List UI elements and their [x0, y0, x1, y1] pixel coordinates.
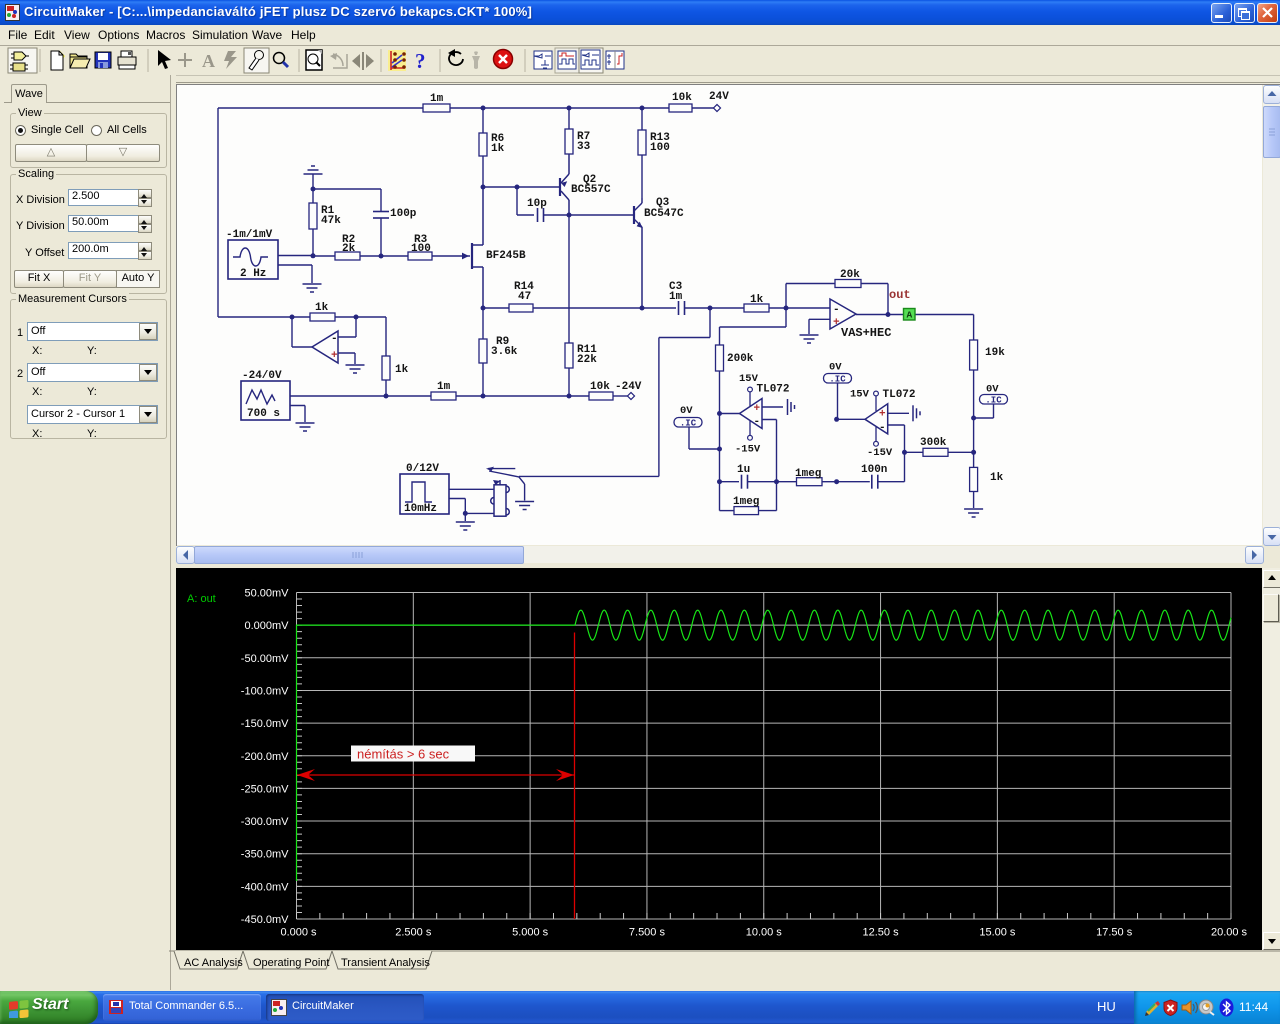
- ground: [964, 509, 983, 517]
- svg-text:BC557C: BC557C: [571, 184, 611, 196]
- wire fb up: [786, 284, 835, 309]
- wire gnd stub: [312, 174, 314, 189]
- tab Operating Point: [243, 951, 332, 969]
- resistor 1m (row 396): [431, 392, 456, 400]
- svg-text:1m: 1m: [430, 93, 444, 105]
- capacitor 100p: [373, 212, 389, 219]
- wire 10k to terminal: [692, 107, 714, 109]
- wire R14 right: [533, 307, 642, 309]
- tab row: [176, 950, 1280, 973]
- svg-text:0V: 0V: [829, 362, 842, 374]
- svg-text:200k: 200k: [727, 353, 754, 365]
- svg-text:1meg: 1meg: [795, 468, 821, 480]
- ground: [913, 405, 920, 421]
- svg-text:2.500 s: 2.500 s: [395, 927, 432, 939]
- svg-text:1k: 1k: [315, 302, 329, 314]
- scrollbars, tabs, taskbar: [1263, 85, 1280, 545]
- wire 10p left wire: [517, 187, 534, 215]
- svg-text:A: A: [202, 51, 215, 71]
- svg-text:-450.0mV: -450.0mV: [241, 914, 289, 926]
- resistor R6 1k: [479, 133, 487, 156]
- svg-text:+: +: [879, 409, 886, 421]
- wire 1meg-r right: [822, 481, 837, 483]
- wire R9 top: [482, 308, 484, 339]
- wire row317 left: [218, 316, 310, 318]
- svg-text:2k: 2k: [342, 243, 356, 255]
- wire U4 out: [837, 418, 865, 420]
- wire R7 top: [568, 108, 570, 129]
- resistor R11 22k: [565, 343, 573, 368]
- svg-text:100n: 100n: [861, 464, 887, 476]
- svg-text:0V: 0V: [680, 405, 693, 417]
- svg-text:BC547C: BC547C: [644, 208, 684, 220]
- svg-text:47k: 47k: [321, 215, 341, 227]
- menu bar: [0, 25, 1280, 46]
- svg-text:15V: 15V: [850, 389, 870, 401]
- svg-text:0V: 0V: [986, 384, 999, 396]
- wire to 100p: [313, 188, 381, 190]
- svg-text:némítás > 6 sec: némítás > 6 sec: [357, 747, 450, 762]
- wire U2 out: [856, 314, 974, 316]
- op-amp U1 (left pointing): [312, 331, 338, 363]
- annotation nemitas: [351, 746, 475, 762]
- svg-text:0/12V: 0/12V: [406, 463, 439, 475]
- svg-text:19k: 19k: [985, 347, 1005, 359]
- svg-text:.IC: .IC: [680, 419, 697, 429]
- schematic canvas: [177, 85, 1262, 545]
- wire left column: [217, 108, 219, 317]
- waveform area: [176, 568, 1262, 950]
- wire 1meg-r left: [777, 481, 797, 483]
- source V1 sine -1m/1mV 2Hz: [228, 240, 278, 279]
- wire U4 minus: [888, 425, 905, 482]
- resistor R7 33: [565, 129, 573, 154]
- relay K1 coil: [491, 480, 510, 516]
- svg-text:3.6k: 3.6k: [491, 346, 518, 358]
- wire R2-R3: [360, 255, 408, 257]
- resistor 1meg (series): [797, 478, 823, 486]
- svg-text:+: +: [754, 403, 761, 415]
- transistor BF245B JFET: [432, 187, 483, 308]
- resistor 200k: [716, 345, 724, 371]
- wire R13 bottom: [641, 155, 643, 198]
- wire 100n left: [837, 481, 870, 483]
- x axis minor ticks: [297, 913, 1232, 919]
- wire U4 plus: [888, 412, 909, 414]
- svg-text:-1m/1mV: -1m/1mV: [226, 229, 273, 241]
- svg-text:2 Hz: 2 Hz: [240, 268, 266, 280]
- wire IC2 wire: [837, 383, 839, 419]
- resistor R1 47k: [309, 203, 317, 229]
- svg-text:AC Analysis: AC Analysis: [184, 957, 243, 969]
- transistor Q2 BC557C: [560, 154, 569, 215]
- wire U2 plus wire: [809, 319, 830, 334]
- op-amp U4 TL072 (left pointing): [865, 404, 888, 434]
- resistor R13 100: [638, 130, 646, 155]
- wire R6 bottom: [482, 156, 484, 187]
- wire div mid: [973, 418, 975, 467]
- svg-text:-400.0mV: -400.0mV: [241, 881, 289, 893]
- resistor 1k (feedback row): [310, 313, 335, 321]
- transistor Q3 BC547C: [634, 198, 643, 308]
- ground: [296, 423, 315, 431]
- svg-text:5.000 s: 5.000 s: [512, 927, 549, 939]
- resistor 1k (vertical): [382, 356, 390, 380]
- svg-text:-350.0mV: -350.0mV: [241, 849, 289, 861]
- svg-text:+: +: [331, 350, 338, 362]
- op-amp U2 VAS+HEC: [830, 299, 856, 329]
- capacitor 10p: [538, 208, 544, 222]
- svg-text:?: ?: [415, 49, 426, 73]
- wire 200k top: [720, 308, 787, 345]
- toolbar: [0, 46, 1280, 76]
- wire 10k right: [613, 395, 628, 397]
- svg-text:1k: 1k: [990, 472, 1004, 484]
- node -24V terminal: [627, 392, 634, 399]
- svg-text:TL072: TL072: [757, 384, 790, 396]
- svg-text:-200.0mV: -200.0mV: [241, 751, 289, 763]
- junctions: [481, 106, 486, 111]
- wire C3 left: [642, 307, 676, 309]
- wire 1meg-b right: [759, 510, 777, 512]
- wire IC1 wire: [689, 427, 720, 449]
- svg-text:17.50 s: 17.50 s: [1096, 927, 1133, 939]
- wire 1u right: [748, 481, 777, 483]
- grid: [297, 593, 1232, 920]
- wire 19k bottom: [973, 370, 975, 418]
- svg-text:10.00 s: 10.00 s: [746, 927, 783, 939]
- left panel: [0, 75, 176, 990]
- svg-text:300k: 300k: [920, 437, 947, 449]
- wire row396: [456, 395, 589, 397]
- svg-text:33: 33: [577, 141, 591, 153]
- svg-text:1m: 1m: [669, 291, 683, 303]
- svg-text:50.00mV: 50.00mV: [244, 588, 289, 600]
- svg-text:TL072: TL072: [883, 389, 916, 401]
- wire 1u left: [720, 481, 740, 483]
- wire R9 bottom: [482, 363, 484, 396]
- wire U1 minus: [338, 317, 356, 337]
- wire fb right: [861, 284, 888, 315]
- wire top rail mid: [450, 107, 669, 109]
- resistor 10k (to -24V): [589, 392, 613, 400]
- node 24V terminal: [713, 104, 720, 111]
- wire U1 plus: [338, 353, 355, 364]
- svg-text:Operating Point: Operating Point: [253, 957, 329, 969]
- svg-text:700 s: 700 s: [247, 408, 280, 420]
- wire gnd stub2: [464, 513, 466, 521]
- y axis minor ticks: [297, 593, 303, 920]
- resistor 300k: [923, 448, 948, 456]
- svg-text:0.000 s: 0.000 s: [280, 927, 317, 939]
- resistor R3 100: [408, 252, 432, 260]
- tab Transient Analysis: [332, 951, 432, 969]
- wire V2 gnd pin: [290, 406, 305, 423]
- svg-text:-150.0mV: -150.0mV: [241, 718, 289, 730]
- title bar: [0, 0, 1280, 25]
- ground: [303, 284, 322, 292]
- svg-text:20.00 s: 20.00 s: [1211, 927, 1248, 939]
- svg-text:-100.0mV: -100.0mV: [241, 686, 289, 698]
- wire R1 top: [312, 189, 314, 203]
- wire to 1k vert: [385, 317, 387, 356]
- wire R14 left: [483, 307, 509, 309]
- wire Q2 base wire: [483, 186, 560, 188]
- svg-text:-: -: [331, 333, 338, 345]
- wire 100p bottom wire: [380, 218, 382, 256]
- svg-text:VAS+HEC: VAS+HEC: [841, 326, 891, 340]
- wire U3 minus: [762, 420, 777, 511]
- wire R13 top: [641, 108, 643, 130]
- ground: [800, 335, 819, 343]
- svg-text:100: 100: [650, 142, 670, 154]
- wire U1 out: [292, 317, 312, 347]
- svg-text:24V: 24V: [709, 91, 729, 103]
- capacitor 1u: [742, 475, 748, 489]
- svg-text:BF245B: BF245B: [486, 250, 526, 262]
- wire U3 plus: [762, 406, 783, 408]
- resistor 19k: [970, 340, 978, 370]
- wire R11 top: [568, 215, 570, 343]
- wire 1k left: [710, 307, 744, 309]
- svg-text:10k: 10k: [590, 381, 610, 393]
- svg-text:-: -: [833, 304, 840, 316]
- resistor 1k (to VAS): [744, 304, 769, 312]
- wire U3 out: [720, 413, 740, 415]
- svg-text:10mHz: 10mHz: [404, 503, 437, 515]
- wire R6 top: [482, 108, 484, 133]
- capacitor 100n: [872, 475, 878, 489]
- wire 1k gnd: [973, 492, 975, 509]
- svg-text:1k: 1k: [395, 364, 409, 376]
- svg-text:-15V: -15V: [867, 447, 893, 459]
- wire 10p right wire: [544, 214, 570, 216]
- tab AC Analysis: [174, 951, 243, 969]
- svg-text:A: out: A: out: [187, 593, 216, 605]
- wire V3 gnd pin: [449, 499, 465, 514]
- wire 200k bottom rail: [719, 371, 721, 511]
- resistor R14 47: [509, 304, 533, 312]
- ground: [456, 522, 475, 530]
- op-amp U3 TL072 (left pointing): [740, 399, 763, 429]
- resistor 20k feedback: [835, 280, 861, 288]
- wire 300k right: [948, 451, 974, 453]
- svg-text:12.50 s: 12.50 s: [863, 927, 900, 939]
- svg-text:7.500 s: 7.500 s: [629, 927, 666, 939]
- wire R1 bottom: [312, 229, 314, 256]
- wire R11 bottom: [568, 368, 570, 396]
- svg-text:-24V: -24V: [615, 381, 642, 393]
- svg-text:47: 47: [518, 291, 531, 303]
- svg-text:1k: 1k: [750, 294, 764, 306]
- source V2 -24/0V 700s: [241, 381, 290, 420]
- svg-text:-15V: -15V: [735, 444, 761, 456]
- wire V1 gnd pin: [278, 265, 312, 283]
- wire V3 out: [449, 488, 494, 490]
- resistor 1m (top): [423, 104, 450, 112]
- wire C3 right: [685, 307, 711, 309]
- red measurement arrow: [297, 774, 574, 776]
- switch S1: [486, 467, 525, 501]
- wire 19k top: [973, 315, 975, 341]
- wire switch to mute node: [519, 308, 710, 476]
- ground: [515, 502, 534, 510]
- client border: [0, 82, 1280, 83]
- ground: [788, 399, 795, 415]
- svg-text:Transient Analysis: Transient Analysis: [341, 957, 430, 969]
- svg-text:10p: 10p: [527, 198, 547, 210]
- svg-text:0.000mV: 0.000mV: [244, 620, 289, 632]
- svg-text:+: +: [833, 317, 840, 329]
- svg-text:-300.0mV: -300.0mV: [241, 816, 289, 828]
- red cursor line at 6s: [574, 633, 576, 920]
- svg-text:out: out: [889, 288, 911, 302]
- svg-text:100: 100: [411, 243, 431, 255]
- resistor 10k (to 24V): [669, 104, 692, 112]
- svg-text:A: A: [906, 310, 912, 321]
- svg-text:1u: 1u: [737, 464, 750, 476]
- wire row317 right: [335, 316, 386, 318]
- wire 100n right: [878, 481, 905, 483]
- green waveform trace: [297, 610, 1232, 881]
- ground: [346, 365, 365, 373]
- wire relay bottom wire: [465, 512, 494, 514]
- svg-text:22k: 22k: [577, 354, 597, 366]
- svg-text:15.00 s: 15.00 s: [979, 927, 1016, 939]
- wire Q3 base wire: [569, 214, 634, 216]
- svg-text:-: -: [879, 422, 886, 434]
- svg-text:10k: 10k: [672, 92, 692, 104]
- wire IC3 wire: [974, 404, 994, 418]
- wire 1kv bottom: [385, 380, 387, 396]
- svg-text:1m: 1m: [437, 381, 451, 393]
- wire 1k right: [769, 307, 830, 309]
- ground: [304, 166, 323, 174]
- svg-text:-250.0mV: -250.0mV: [241, 783, 289, 795]
- wire V1 out: [278, 255, 313, 257]
- svg-text:1meg: 1meg: [733, 496, 759, 508]
- svg-text:100p: 100p: [390, 208, 417, 220]
- resistor 1meg (lower feedback): [734, 507, 759, 515]
- svg-text:1k: 1k: [491, 143, 505, 155]
- wire V2 out: [290, 395, 431, 397]
- resistor 1k (output divider): [970, 467, 978, 491]
- resistor R9 3.6k: [479, 339, 487, 363]
- resistor R2 2k: [335, 252, 360, 260]
- svg-text:-: -: [754, 416, 761, 428]
- wire 100p top wire: [380, 189, 382, 211]
- svg-text:-50.00mV: -50.00mV: [241, 653, 289, 665]
- wire sig row: [313, 255, 335, 257]
- capacitor C3 1m: [679, 301, 685, 315]
- wire 1meg-b left: [720, 510, 735, 512]
- wire top rail left: [218, 107, 423, 109]
- svg-text:-24/0V: -24/0V: [242, 370, 282, 382]
- wire 300k left: [905, 451, 924, 453]
- svg-text:20k: 20k: [840, 269, 860, 281]
- source V3 pulse 0/12V 10mHz: [400, 474, 449, 514]
